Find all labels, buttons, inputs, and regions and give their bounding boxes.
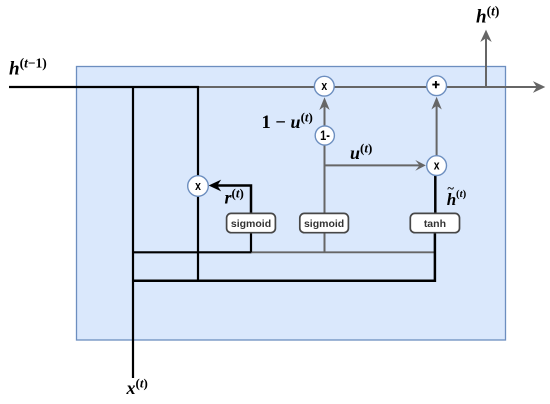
wire: sigmoid r output up and left into multiply node (black arrow) [209, 180, 251, 214]
wire: tanh output up to multiply node (black) [434, 175, 437, 213]
gate: sigmoid (reset gate r) [227, 213, 276, 232]
node: add on state line [427, 76, 447, 96]
GRU cell body (light blue container) [77, 67, 506, 341]
label: h~(t) candidate [447, 181, 467, 208]
wire: black distribution line y=252 (left part) [133, 251, 252, 253]
node: 1- (one minus u) [315, 126, 334, 145]
svg-text:(t): (t) [456, 188, 467, 200]
wire: main horizontal state line to output (gray) with right arrowhead [197, 81, 545, 93]
svg-text:h(t): h(t) [476, 3, 499, 27]
svg-text:x: x [434, 157, 440, 172]
gate: tanh (candidate h~) [410, 213, 459, 232]
wire: gray arrow from right multiply node up into add node [431, 97, 441, 156]
wire: sigmoid r bottom connector [250, 232, 252, 252]
wire: x(t) input vertical line [132, 86, 134, 378]
svg-text:1-: 1- [320, 128, 330, 143]
wire: u column below 1- node down to sigmoid u [324, 145, 326, 214]
wire: bottom distribution line y=280 with rise to tanh [133, 232, 435, 280]
svg-text:sigmoid: sigmoid [231, 218, 271, 230]
svg-text:~: ~ [447, 181, 454, 195]
svg-text:x: x [195, 178, 201, 193]
wire: gray distribution line y=252 (right part to tanh column) [251, 251, 436, 253]
gate: sigmoid (update gate u) [300, 213, 349, 232]
node: multiply (update gate with candidate) [427, 156, 447, 176]
node: multiply (reset gate applied to h) [188, 176, 209, 197]
svg-text:x(t): x(t) [126, 376, 148, 398]
wire: u column gray arrow into top multiply node [319, 97, 329, 126]
node: multiply (forget gate) on state line [314, 76, 334, 96]
wire: u branch horizontal arrow into right multiply node (gray) [325, 160, 426, 171]
svg-text:sigmoid: sigmoid [304, 218, 344, 230]
svg-text:h(t−1): h(t−1) [9, 56, 47, 80]
svg-text:x: x [321, 78, 327, 93]
svg-text:tanh: tanh [424, 218, 446, 230]
wire: h branch vertical through reset multiply node [197, 86, 199, 282]
wire: h(t) output up arrow (gray) [480, 30, 491, 88]
wire: sigmoid u bottom connector (gray) [324, 232, 326, 253]
wire: h(t-1) input line (black, left) [9, 86, 199, 88]
